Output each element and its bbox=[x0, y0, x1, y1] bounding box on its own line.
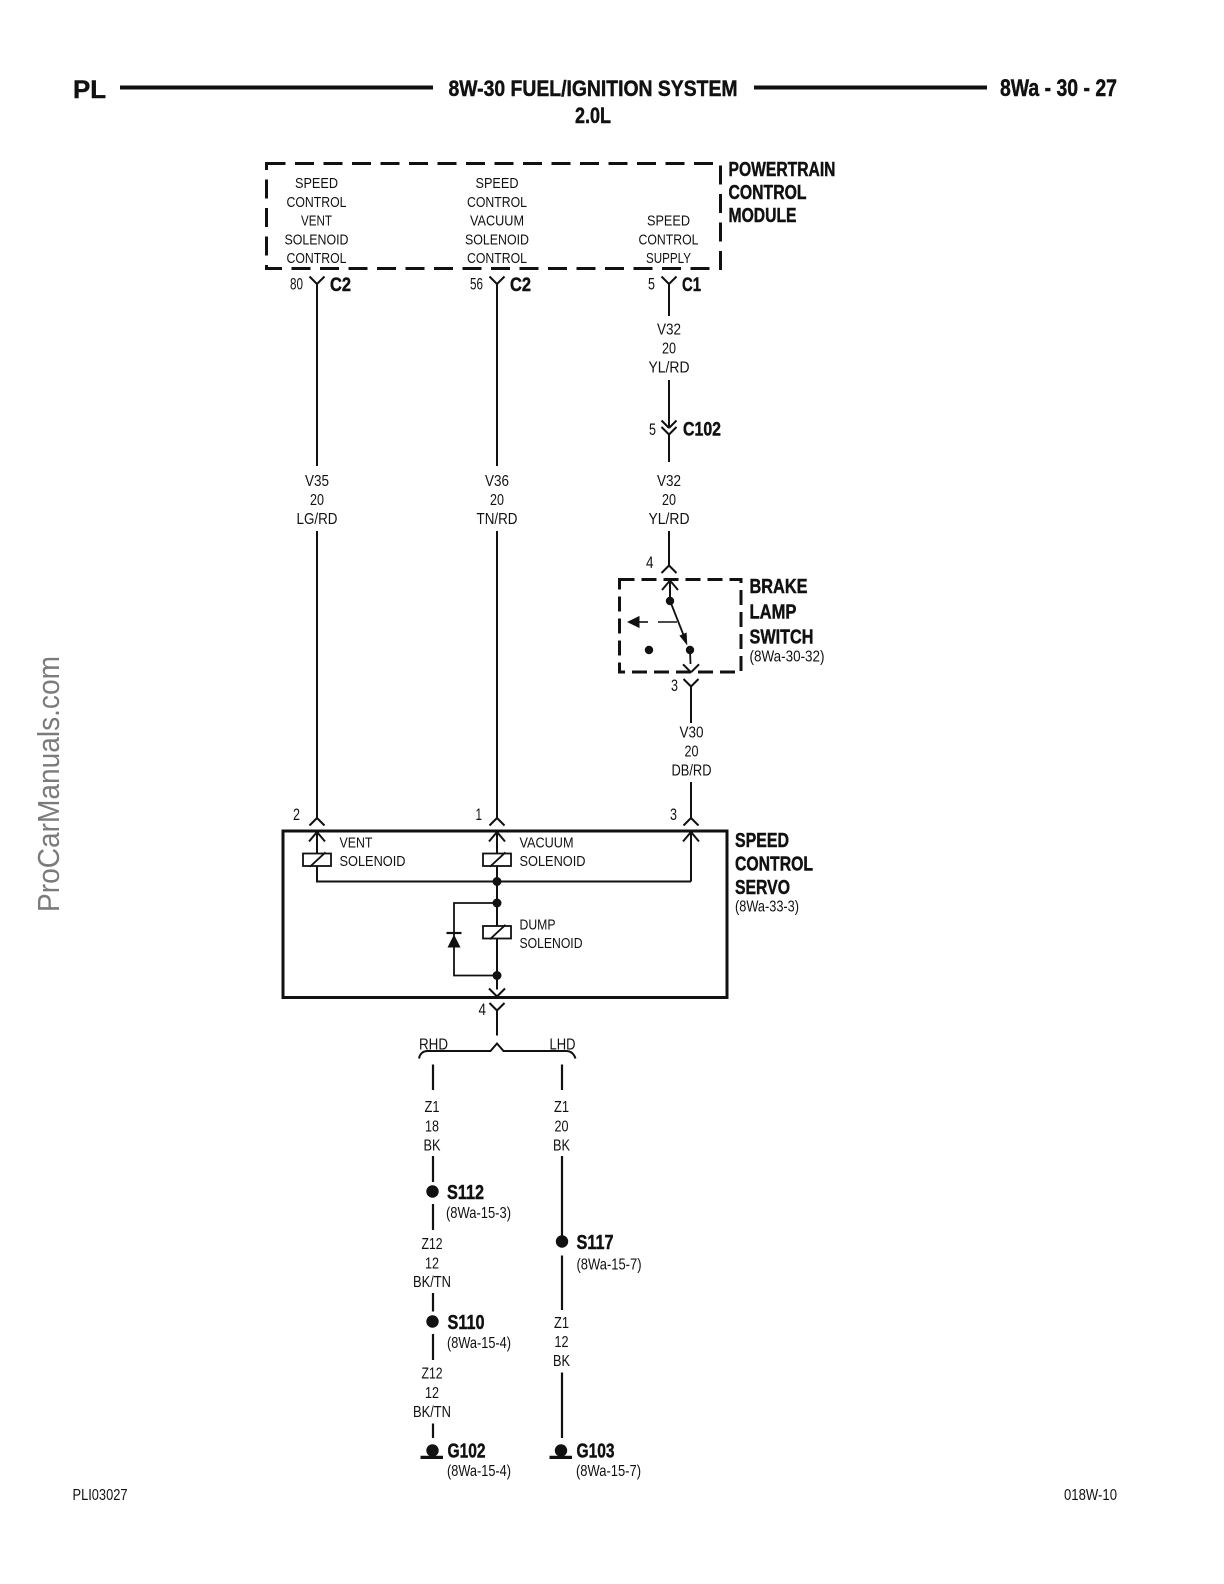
svg-text:YL/RD: YL/RD bbox=[649, 511, 690, 528]
svg-text:LG/RD: LG/RD bbox=[297, 511, 338, 528]
svg-text:3: 3 bbox=[670, 806, 677, 824]
svg-text:SPEED: SPEED bbox=[295, 175, 338, 192]
svg-text:SUPPLY: SUPPLY bbox=[646, 250, 691, 267]
svg-text:SPEED: SPEED bbox=[647, 213, 690, 230]
svg-text:20: 20 bbox=[662, 492, 676, 509]
svg-text:018W-10: 018W-10 bbox=[1064, 1487, 1117, 1504]
svg-text:C2: C2 bbox=[330, 274, 351, 296]
svg-text:5: 5 bbox=[648, 276, 655, 294]
svg-text:Z12: Z12 bbox=[422, 1366, 443, 1383]
svg-text:4: 4 bbox=[479, 1001, 487, 1019]
svg-text:CONTROL: CONTROL bbox=[735, 854, 813, 876]
svg-text:CONTROL: CONTROL bbox=[287, 194, 347, 211]
svg-text:TN/RD: TN/RD bbox=[477, 511, 518, 528]
svg-text:8Wa - 30 - 27: 8Wa - 30 - 27 bbox=[1000, 75, 1117, 102]
svg-text:LHD: LHD bbox=[550, 1037, 576, 1054]
svg-text:MODULE: MODULE bbox=[729, 205, 797, 227]
svg-text:20: 20 bbox=[555, 1119, 569, 1136]
svg-text:PL: PL bbox=[73, 76, 106, 104]
svg-text:Z1: Z1 bbox=[425, 1099, 440, 1116]
svg-text:SOLENOID: SOLENOID bbox=[285, 231, 349, 248]
svg-text:CONTROL: CONTROL bbox=[729, 182, 807, 204]
svg-text:YL/RD: YL/RD bbox=[649, 360, 690, 377]
svg-text:C1: C1 bbox=[682, 274, 701, 296]
svg-text:BK: BK bbox=[424, 1138, 441, 1155]
svg-text:Z1: Z1 bbox=[554, 1099, 569, 1116]
svg-text:VENT: VENT bbox=[340, 835, 373, 852]
svg-text:20: 20 bbox=[490, 492, 504, 509]
svg-text:V30: V30 bbox=[680, 725, 704, 742]
svg-text:BK: BK bbox=[553, 1353, 570, 1370]
svg-text:V36: V36 bbox=[485, 473, 509, 490]
svg-text:(8Wa-15-7): (8Wa-15-7) bbox=[577, 1257, 642, 1274]
svg-text:(8Wa-15-4): (8Wa-15-4) bbox=[447, 1463, 511, 1480]
svg-text:SPEED: SPEED bbox=[476, 175, 519, 192]
svg-text:8W-30 FUEL/IGNITION SYSTEM: 8W-30 FUEL/IGNITION SYSTEM bbox=[449, 76, 738, 101]
svg-text:CONTROL: CONTROL bbox=[467, 194, 527, 211]
svg-text:BK/TN: BK/TN bbox=[413, 1404, 451, 1421]
svg-text:1: 1 bbox=[476, 806, 483, 824]
svg-text:SERVO: SERVO bbox=[735, 877, 790, 899]
svg-text:POWERTRAIN: POWERTRAIN bbox=[729, 159, 836, 181]
svg-text:2: 2 bbox=[293, 806, 300, 824]
svg-text:S110: S110 bbox=[448, 1311, 485, 1334]
svg-text:20: 20 bbox=[685, 744, 699, 761]
svg-text:SOLENOID: SOLENOID bbox=[520, 853, 586, 870]
svg-text:4: 4 bbox=[646, 554, 654, 572]
svg-text:18: 18 bbox=[425, 1119, 439, 1136]
svg-text:12: 12 bbox=[555, 1334, 569, 1351]
svg-text:20: 20 bbox=[310, 492, 324, 509]
svg-text:CONTROL: CONTROL bbox=[639, 231, 699, 248]
svg-text:Z12: Z12 bbox=[422, 1236, 443, 1253]
svg-text:SPEED: SPEED bbox=[735, 830, 789, 852]
svg-text:(8Wa-15-3): (8Wa-15-3) bbox=[446, 1205, 511, 1222]
svg-text:LAMP: LAMP bbox=[750, 602, 797, 624]
svg-text:SWITCH: SWITCH bbox=[750, 627, 814, 649]
svg-text:ProCarManuals.com: ProCarManuals.com bbox=[31, 656, 66, 912]
svg-text:C102: C102 bbox=[683, 419, 721, 441]
svg-text:BK: BK bbox=[553, 1138, 570, 1155]
svg-text:S117: S117 bbox=[577, 1231, 614, 1254]
svg-text:(8Wa-30-32): (8Wa-30-32) bbox=[750, 649, 825, 666]
svg-text:2.0L: 2.0L bbox=[575, 103, 611, 128]
svg-text:V35: V35 bbox=[305, 473, 329, 490]
svg-text:BK/TN: BK/TN bbox=[413, 1274, 451, 1291]
svg-text:CONTROL: CONTROL bbox=[287, 250, 347, 267]
svg-text:DB/RD: DB/RD bbox=[672, 763, 712, 780]
svg-text:12: 12 bbox=[425, 1256, 439, 1273]
svg-text:(8Wa-15-4): (8Wa-15-4) bbox=[447, 1335, 511, 1352]
svg-text:VACUUM: VACUUM bbox=[470, 213, 524, 230]
svg-text:DUMP: DUMP bbox=[520, 917, 556, 934]
svg-text:VENT: VENT bbox=[301, 213, 332, 230]
svg-text:SOLENOID: SOLENOID bbox=[520, 935, 583, 952]
svg-text:V32: V32 bbox=[657, 322, 681, 339]
svg-text:SOLENOID: SOLENOID bbox=[465, 231, 529, 248]
svg-text:PLI03027: PLI03027 bbox=[73, 1487, 128, 1504]
svg-text:20: 20 bbox=[662, 341, 676, 358]
svg-text:G103: G103 bbox=[577, 1440, 615, 1463]
svg-text:3: 3 bbox=[671, 677, 678, 695]
svg-text:RHD: RHD bbox=[419, 1037, 448, 1054]
svg-text:CONTROL: CONTROL bbox=[467, 250, 527, 267]
svg-text:BRAKE: BRAKE bbox=[750, 576, 808, 598]
svg-text:5: 5 bbox=[649, 421, 656, 439]
svg-text:S112: S112 bbox=[447, 1181, 484, 1204]
svg-text:VACUUM: VACUUM bbox=[520, 835, 574, 852]
svg-text:(8Wa-15-7): (8Wa-15-7) bbox=[576, 1463, 641, 1480]
svg-text:56: 56 bbox=[470, 276, 483, 294]
svg-text:12: 12 bbox=[425, 1385, 439, 1402]
svg-text:Z1: Z1 bbox=[554, 1315, 569, 1332]
svg-text:V32: V32 bbox=[657, 473, 681, 490]
svg-text:80: 80 bbox=[290, 276, 303, 294]
svg-text:C2: C2 bbox=[510, 274, 531, 296]
svg-text:(8Wa-33-3): (8Wa-33-3) bbox=[735, 899, 799, 916]
svg-text:G102: G102 bbox=[448, 1440, 486, 1463]
svg-text:SOLENOID: SOLENOID bbox=[340, 853, 406, 870]
